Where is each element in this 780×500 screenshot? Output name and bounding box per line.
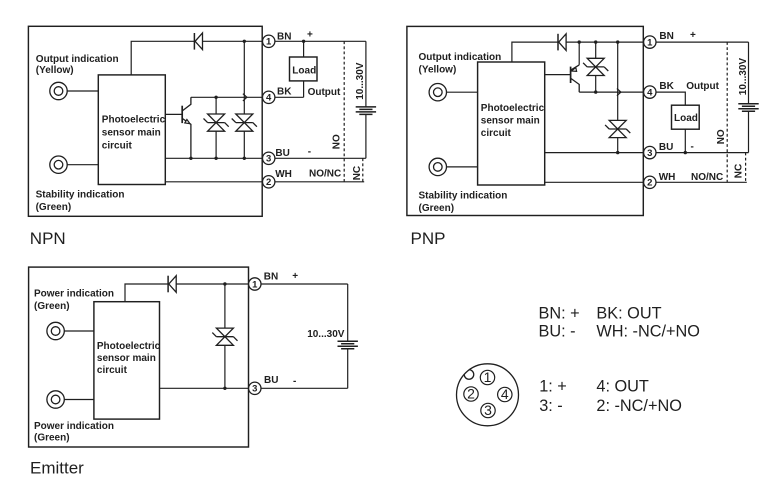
svg-text:4: 4 — [647, 88, 653, 99]
terminal 3 (BU) — [249, 382, 261, 395]
wire BK from terminal 4 — [656, 92, 685, 105]
wire WH extension — [656, 181, 747, 183]
svg-text:+: + — [690, 30, 696, 41]
svg-text:BU: -: BU: - — [539, 322, 576, 340]
svg-text:circuit: circuit — [97, 365, 128, 376]
wire WH line — [165, 181, 262, 183]
svg-text:NO/NC: NO/NC — [309, 169, 341, 180]
svg-text:3: -: 3: - — [539, 397, 563, 415]
legend wire colour row 1 — [539, 305, 662, 323]
svg-text:-: - — [691, 142, 694, 153]
junction node load top — [302, 40, 305, 43]
svg-text:Load: Load — [292, 65, 316, 76]
connector pin 4 — [498, 386, 512, 402]
svg-text:Power indication: Power indication — [34, 289, 114, 300]
connector keyway notch — [464, 370, 474, 380]
terminal 2 (WH) — [263, 176, 275, 189]
svg-text:NO: NO — [716, 129, 727, 144]
LED stability indicator (green) — [429, 158, 446, 175]
svg-text:10...30V: 10...30V — [307, 329, 345, 340]
label: Output indication (Yellow) — [36, 54, 119, 76]
wire BU line — [165, 157, 262, 159]
LED power indicator bottom (green) — [47, 391, 64, 408]
svg-text:BU: BU — [659, 142, 673, 153]
wire BU to battery — [275, 157, 366, 159]
label: Power indication (Green) bottom — [34, 421, 114, 444]
dashed NO select line — [343, 41, 345, 182]
wire base from main circuit — [545, 74, 571, 76]
sensor outline box (PNP) — [407, 26, 643, 215]
svg-text:10...30V: 10...30V — [355, 62, 366, 100]
svg-text:Photoelectric: Photoelectric — [102, 114, 166, 125]
battery 10...30V — [356, 41, 376, 158]
svg-text:NO: NO — [331, 134, 342, 149]
label: Stability indication (Green) — [419, 190, 508, 214]
svg-text:2: 2 — [647, 178, 652, 189]
photoelectric sensor main circuit box — [94, 302, 161, 419]
svg-text:Load: Load — [674, 113, 698, 124]
svg-text:3: 3 — [484, 402, 492, 418]
wire LED2 to main circuit — [447, 166, 478, 168]
dashed NC select line — [745, 153, 747, 183]
wire diode to terminal 1 — [176, 283, 248, 285]
battery 10...30V — [338, 284, 358, 388]
LED output indicator (yellow) — [50, 82, 67, 99]
svg-text:NPN: NPN — [30, 229, 66, 248]
svg-text:(Green): (Green) — [34, 432, 70, 443]
sensor outline box (Emitter) — [29, 267, 249, 447]
svg-text:2: 2 — [467, 386, 475, 402]
wire BK from terminal 4 — [275, 96, 304, 98]
wire BN to battery — [656, 41, 749, 43]
wire BU to battery — [656, 152, 749, 154]
zener diode Z2 (surge absorber) — [605, 42, 630, 153]
M8 connector face — [457, 364, 519, 426]
svg-text:sensor main: sensor main — [102, 127, 161, 138]
svg-text:Power indication: Power indication — [34, 421, 114, 432]
svg-text:(Yellow): (Yellow) — [36, 65, 74, 76]
wire diode to terminal 1 — [566, 41, 643, 43]
junction node zener Z1 bottom — [594, 90, 597, 93]
svg-text:BN: BN — [264, 272, 278, 283]
svg-text:4: 4 — [501, 386, 509, 402]
wire LED1 to main circuit — [67, 90, 98, 92]
junction node on BN line — [243, 40, 246, 43]
svg-text:4: OUT: 4: OUT — [596, 378, 649, 396]
svg-text:Emitter: Emitter — [30, 458, 84, 477]
zener diode Z1 (surge absorber) — [204, 97, 229, 158]
svg-text:circuit: circuit — [481, 128, 512, 139]
svg-text:WH: WH — [659, 172, 676, 183]
legend pin row 1 — [539, 378, 649, 396]
svg-text:3: 3 — [252, 384, 257, 395]
wire LED2 to main circuit — [67, 164, 98, 166]
svg-text:sensor main: sensor main — [97, 353, 156, 364]
label: Power indication (Green) top — [34, 289, 114, 313]
terminal 1 (BN) — [263, 35, 275, 48]
arrow output direction — [617, 89, 621, 96]
svg-text:Output: Output — [308, 87, 341, 98]
terminal 1 (BN) — [249, 278, 261, 291]
wire BN riser from main circuit — [512, 42, 558, 62]
svg-text:1: 1 — [647, 38, 653, 49]
svg-text:BU: BU — [264, 375, 278, 386]
svg-text:WH: -NC/+NO: WH: -NC/+NO — [596, 322, 700, 340]
wire base from main circuit — [165, 113, 182, 115]
svg-text:+: + — [307, 29, 313, 40]
dashed NO select line — [726, 42, 728, 182]
svg-text:circuit: circuit — [102, 140, 133, 151]
terminal 4 (BK) — [644, 86, 656, 99]
junction node zener Z1 top — [214, 96, 217, 99]
zener diode Z2 (surge absorber) — [232, 114, 257, 158]
svg-text:3: 3 — [647, 148, 652, 159]
arrow output direction — [243, 94, 247, 101]
wire BU line — [545, 152, 644, 154]
wire WH line — [545, 181, 644, 183]
svg-text:sensor main: sensor main — [481, 116, 540, 127]
sensor outline box (NPN) — [28, 26, 262, 216]
wire BN down to zener Z2 — [243, 41, 245, 114]
svg-text:-: - — [308, 147, 311, 158]
connector pin 2 — [464, 386, 478, 402]
zener diode Z1 (surge absorber) — [212, 284, 237, 388]
svg-text:Stability indication: Stability indication — [419, 190, 508, 201]
wire BN to battery — [261, 283, 348, 285]
terminal 3 (BU) — [263, 152, 275, 165]
svg-text:10...30V: 10...30V — [738, 58, 749, 96]
LED output indicator (yellow) — [429, 84, 446, 101]
terminal 2 (WH) — [644, 176, 656, 189]
wire down to load — [303, 41, 305, 57]
svg-text:2: -NC/+NO: 2: -NC/+NO — [596, 397, 682, 415]
svg-text:Photoelectric: Photoelectric — [481, 103, 545, 114]
svg-text:BN: BN — [659, 31, 673, 42]
svg-text:(Yellow): (Yellow) — [419, 65, 457, 76]
svg-text:BK: BK — [277, 86, 292, 97]
svg-text:BK: BK — [659, 81, 674, 92]
svg-text:4: 4 — [266, 93, 272, 104]
svg-text:BU: BU — [275, 148, 289, 159]
wire LED2 to main circuit — [64, 399, 94, 401]
LED power indicator top (green) — [47, 322, 64, 339]
terminal 4 (BK) — [263, 91, 275, 104]
svg-text:NC: NC — [734, 164, 745, 178]
svg-text:BK: OUT: BK: OUT — [596, 305, 661, 323]
svg-text:WH: WH — [275, 169, 292, 180]
wire LED1 to main circuit — [64, 330, 94, 332]
wire BK output line — [191, 96, 263, 98]
load box — [290, 57, 318, 81]
diode D1 (reverse protection) — [168, 276, 176, 293]
wire BU to battery — [261, 387, 348, 389]
svg-text:+: + — [292, 271, 298, 282]
svg-text:BN: BN — [277, 32, 291, 43]
wire BN riser from main circuit — [131, 41, 194, 75]
diode D1 (reverse protection) — [194, 33, 202, 50]
svg-text:NO/NC: NO/NC — [691, 172, 723, 183]
junction nodes on BU line — [189, 157, 246, 160]
wire LED1 to main circuit — [447, 91, 478, 93]
junction node on BN line — [223, 282, 226, 285]
wire BK output line — [579, 91, 643, 93]
label: Stability indication (Green) — [36, 190, 125, 214]
svg-text:BN: +: BN: + — [539, 305, 580, 323]
svg-text:-: - — [293, 376, 296, 387]
svg-text:1: +: 1: + — [539, 378, 567, 396]
wire BN riser from main circuit — [125, 284, 168, 302]
junction node on BU line — [223, 387, 226, 390]
svg-text:1: 1 — [266, 37, 272, 48]
photoelectric sensor main circuit box — [478, 62, 545, 185]
photoelectric sensor main circuit box — [98, 75, 165, 185]
legend wire colour row 2 — [539, 322, 700, 340]
svg-text:1: 1 — [484, 369, 492, 385]
wire diode to terminal 1 — [203, 40, 263, 42]
wire load to BU line — [684, 129, 686, 152]
connector pin 1 — [480, 369, 494, 385]
svg-text:1: 1 — [252, 279, 258, 290]
svg-text:2: 2 — [266, 177, 271, 188]
svg-text:Photoelectric: Photoelectric — [97, 341, 161, 352]
junction node load bottom — [684, 151, 687, 154]
connector pin 3 — [481, 402, 495, 418]
junction node on BU line — [616, 151, 619, 154]
svg-text:PNP: PNP — [411, 229, 446, 248]
svg-text:(Green): (Green) — [419, 203, 455, 214]
legend pin row 2 — [539, 397, 682, 415]
zener diode Z1 (surge absorber) — [583, 42, 608, 92]
dashed NC select line — [362, 158, 364, 182]
transistor Q1 (PNP output) — [571, 42, 580, 92]
terminal 3 (BU) — [644, 146, 656, 159]
wire load to BK line — [303, 81, 305, 97]
svg-text:(Green): (Green) — [34, 301, 70, 312]
load box — [672, 105, 700, 129]
svg-text:3: 3 — [266, 154, 271, 165]
svg-text:NC: NC — [352, 166, 363, 180]
label: Output indication (Yellow) — [419, 52, 502, 76]
svg-text:Output indication: Output indication — [36, 54, 119, 65]
transistor Q1 (NPN output) — [182, 97, 191, 158]
terminal 1 (BN) — [644, 36, 656, 49]
svg-text:(Green): (Green) — [36, 202, 72, 213]
svg-text:Stability indication: Stability indication — [36, 190, 125, 201]
diode D1 (reverse protection) — [558, 34, 566, 51]
LED stability indicator (green) — [50, 156, 67, 173]
wire WH extension — [275, 181, 364, 183]
wire BN to battery — [275, 40, 366, 42]
svg-text:Output: Output — [686, 81, 719, 92]
junction nodes on BN line — [578, 40, 620, 43]
wire BU line — [160, 387, 249, 389]
battery 10...30V — [738, 42, 758, 153]
